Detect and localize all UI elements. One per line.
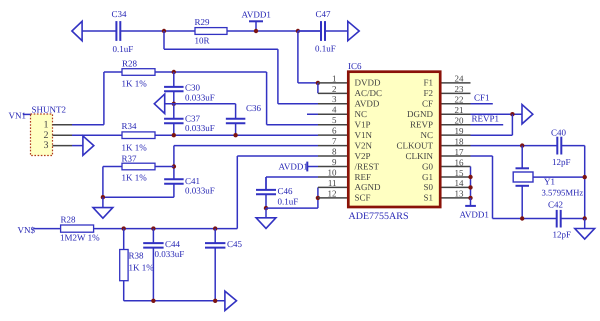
svg-text:24: 24 [455, 74, 465, 84]
pin 16 G0 [442, 166, 471, 168]
pin 1 DVDD [318, 82, 347, 84]
svg-text:1: 1 [332, 73, 337, 83]
wire [120, 30, 195, 32]
ground crystal [584, 219, 586, 229]
svg-text:F1: F1 [423, 78, 433, 88]
pin 3 AVDD [318, 103, 347, 105]
svg-text:3: 3 [44, 140, 49, 151]
svg-text:11: 11 [328, 178, 337, 188]
svg-text:AC/DC: AC/DC [355, 88, 383, 98]
node junction C44 bottom [151, 299, 155, 303]
svg-text:AVDD1: AVDD1 [279, 162, 308, 172]
pin 7 V2N [318, 145, 347, 147]
node junction C37 bottom [172, 133, 176, 137]
wire shunt pin1 up to R28 [72, 124, 104, 126]
crystal Y1 [521, 146, 523, 169]
svg-text:NC: NC [355, 109, 368, 119]
svg-text:1K 1%: 1K 1% [122, 172, 148, 182]
capacitor C46 [265, 177, 267, 190]
pin 15 G1 [442, 176, 471, 178]
svg-text:C40: C40 [551, 128, 567, 138]
port VIN-left (left arrow) [72, 21, 82, 40]
wire C47-junction to pin1 [297, 31, 299, 83]
svg-text:C36: C36 [246, 103, 262, 113]
node junction pin12 SCF [316, 196, 320, 200]
port AVDD-right (right arrow) [348, 21, 359, 40]
svg-text:S1: S1 [423, 193, 433, 203]
svg-text:4: 4 [332, 105, 337, 115]
svg-text:REVP1: REVP1 [472, 113, 500, 123]
wire AVDD branch to pin3 [163, 31, 165, 49]
node junction C36 bottom [233, 133, 237, 137]
svg-text:CF: CF [422, 99, 433, 109]
pin 14 S0 [442, 186, 471, 188]
wire C46 bottom to pin11/12 [266, 207, 318, 209]
svg-text:3.5795MHz: 3.5795MHz [542, 188, 584, 198]
node junction top-rail/R29 [162, 29, 166, 33]
pin 11 AGND [318, 186, 347, 188]
svg-text:ADE7755ARS: ADE7755ARS [349, 211, 409, 222]
pin 19 NC [442, 134, 471, 136]
wire mid line to C36 [165, 103, 236, 105]
port bottom (right arrow) [225, 291, 237, 310]
pin 18 CLKOUT [442, 145, 471, 147]
node junction R38 top [122, 226, 126, 230]
pin 23 F2 [442, 92, 471, 94]
svg-text:19: 19 [455, 126, 465, 136]
wire shunt pin3 [72, 145, 83, 147]
pin 6 V1N [318, 134, 347, 136]
svg-text:CLKIN: CLKIN [406, 151, 434, 161]
svg-text:6: 6 [332, 126, 337, 136]
pin 3 SHUNT2 [53, 145, 73, 147]
capacitor C30 [173, 72, 175, 87]
svg-text:V2P: V2P [355, 151, 371, 161]
svg-text:0.033uF: 0.033uF [185, 123, 215, 133]
wire pin18 CLKOUT [471, 145, 558, 147]
node junction case/right rail [583, 175, 587, 179]
svg-text:1K 1%: 1K 1% [129, 263, 155, 273]
wire NC pin4 stub [307, 113, 318, 115]
wire [227, 30, 321, 32]
wire VN$ [33, 228, 60, 230]
svg-text:V1N: V1N [355, 130, 373, 140]
svg-text:16: 16 [455, 157, 465, 167]
pin 21 DGND [442, 113, 471, 115]
svg-text:AGND: AGND [355, 182, 381, 192]
wire pin19 to DGND [511, 114, 513, 135]
svg-text:0.1uF: 0.1uF [113, 44, 134, 54]
resistor R28 [122, 69, 155, 76]
svg-text:CF1: CF1 [474, 93, 490, 103]
pin 2 AC/DC [318, 92, 347, 94]
ground R37 [102, 197, 104, 207]
node junction C45 bottom [213, 299, 217, 303]
node junction right rail bottom [583, 216, 587, 220]
svg-text:0.033uF: 0.033uF [185, 93, 215, 103]
wire pin20 REVP [471, 124, 504, 126]
svg-text:VN$: VN$ [18, 225, 36, 235]
svg-text:DVDD: DVDD [355, 78, 381, 88]
svg-text:2: 2 [332, 84, 337, 94]
wire C42 right [561, 218, 585, 220]
svg-text:2: 2 [44, 130, 49, 141]
pin 24 F1 [442, 82, 471, 84]
wire C41 bottom to ground node [103, 196, 174, 198]
wire pin22 CF [471, 103, 493, 105]
svg-text:R28: R28 [61, 215, 77, 225]
capacitor C42 [556, 210, 558, 228]
svg-text:SHUNT2: SHUNT2 [32, 105, 67, 115]
resistor R29 [195, 28, 227, 35]
pin 12 SCF [318, 197, 347, 199]
svg-text:12pF: 12pF [553, 230, 572, 240]
svg-text:23: 23 [455, 84, 465, 94]
svg-text:R28: R28 [122, 59, 138, 69]
svg-text:V1P: V1P [355, 120, 371, 130]
svg-text:DGND: DGND [407, 109, 433, 119]
svg-text:0.033uF: 0.033uF [185, 185, 215, 195]
pin 10 REF [318, 176, 347, 178]
wire C40 right [561, 145, 584, 147]
svg-text:21: 21 [455, 105, 464, 115]
svg-text:R37: R37 [122, 154, 138, 164]
node junction pin1/pin2 [316, 81, 320, 85]
wire R34 out to pin6 V1N [155, 134, 318, 136]
resistor R34 [122, 132, 155, 139]
ground C46 [265, 208, 267, 218]
svg-text:CLKOUT: CLKOUT [397, 140, 434, 150]
capacitor C45 [214, 229, 216, 244]
svg-text:AVDD1: AVDD1 [242, 10, 271, 20]
svg-text:3: 3 [332, 94, 337, 104]
wire pin21 DGND [471, 113, 523, 115]
power AVDD1 pin9 [306, 162, 308, 172]
svg-text:C42: C42 [548, 199, 563, 209]
wire crystal case [533, 176, 585, 178]
node junction C30/mid-line [172, 102, 176, 106]
svg-text:R34: R34 [122, 121, 138, 131]
wire pin17 CLKIN [471, 155, 493, 157]
pin 13 S1 [442, 197, 471, 199]
svg-text:AVDD1: AVDD1 [460, 210, 489, 220]
svg-text:NC: NC [420, 130, 433, 140]
node junction R37 right [172, 164, 176, 168]
svg-text:8: 8 [332, 146, 337, 156]
svg-text:REF: REF [355, 172, 372, 182]
node junction crystal bottom [520, 216, 524, 220]
svg-text:22: 22 [455, 95, 464, 105]
svg-text:IC6: IC6 [348, 61, 362, 71]
svg-text:1: 1 [44, 119, 49, 130]
svg-text:20: 20 [455, 116, 465, 126]
node junction crystal top [520, 143, 524, 147]
wire pin10 REF to C46 [266, 176, 318, 178]
connector SHUNT2 [31, 114, 53, 156]
pin 17 CLKIN [442, 155, 471, 157]
svg-text:SCF: SCF [355, 193, 371, 203]
wire pin1 to pin2 jog [317, 83, 319, 93]
svg-text:C45: C45 [227, 239, 243, 249]
svg-text:15: 15 [455, 168, 465, 178]
wire R37 right lead [155, 166, 174, 168]
svg-text:0.033uF: 0.033uF [155, 249, 185, 259]
wire R28 net to pin5 V1P [266, 72, 268, 125]
svg-text:10: 10 [328, 167, 338, 177]
node junction pin13 [468, 196, 472, 200]
svg-text:C34: C34 [112, 9, 128, 19]
svg-text:AVDD: AVDD [355, 99, 380, 109]
port mid (left arrow) [154, 94, 164, 113]
pin 8 V2P [318, 155, 347, 157]
svg-text:17: 17 [455, 147, 465, 157]
svg-text:14: 14 [455, 178, 465, 188]
svg-text:C37: C37 [185, 114, 201, 124]
svg-text:12: 12 [328, 188, 337, 198]
capacitor C44 [152, 229, 154, 244]
wire R28 out [155, 71, 267, 73]
svg-text:REVP: REVP [410, 120, 433, 130]
svg-text:7: 7 [332, 136, 337, 146]
svg-text:C46: C46 [278, 186, 294, 196]
resistor R38 [123, 229, 125, 250]
node junction R28/C30 [172, 70, 176, 74]
svg-text:G1: G1 [422, 172, 433, 182]
op-amp IC6 ADE7755ARS body [348, 72, 440, 207]
wire VN1 [23, 113, 31, 115]
wire shunt pin2 to R34 [72, 134, 122, 136]
svg-text:V2N: V2N [355, 140, 373, 150]
node junction C45 top [213, 226, 217, 230]
capacitor C40 [556, 137, 558, 155]
capacitor C41 [173, 178, 175, 180]
svg-text:R29: R29 [195, 17, 211, 27]
node junction pin14 [468, 185, 472, 189]
node junction DGND/pin19 [510, 112, 514, 116]
wire pin7 V2N net [174, 145, 318, 147]
wire R28-1M out [94, 228, 238, 230]
svg-text:1K 1%: 1K 1% [122, 142, 148, 152]
resistor R37 [122, 163, 155, 170]
svg-text:F2: F2 [423, 88, 433, 98]
pin 20 REVP [442, 124, 471, 126]
svg-text:S0: S0 [423, 182, 433, 192]
svg-text:9: 9 [332, 157, 337, 167]
capacitor C36 [235, 104, 237, 119]
capacitor C34 [115, 30, 117, 32]
power AVDD1 pin13 [470, 198, 472, 206]
svg-text:G0: G0 [422, 161, 433, 171]
pin 22 CF [442, 103, 471, 105]
resistor R28 1M [61, 225, 94, 232]
node junction C46 bottom [264, 206, 268, 210]
wire R37 left to ground [103, 166, 122, 168]
node junction top-rail/C47-drop [296, 29, 300, 33]
svg-text:1K 1%: 1K 1% [122, 79, 148, 89]
node junction ground net [101, 195, 105, 199]
svg-text:Y1: Y1 [544, 177, 555, 187]
svg-text:C44: C44 [165, 239, 181, 249]
wire [82, 30, 116, 32]
svg-text:VN1: VN1 [9, 111, 27, 121]
svg-text:13: 13 [455, 189, 465, 199]
svg-text:5: 5 [332, 115, 337, 125]
node junction pin15 [468, 175, 472, 179]
svg-text:10R: 10R [195, 36, 210, 46]
svg-text:0.1uF: 0.1uF [315, 44, 336, 54]
svg-text:/REST: /REST [355, 161, 380, 171]
pin 5 V1P [318, 124, 347, 126]
svg-text:12pF: 12pF [552, 157, 571, 167]
port DGND (right arrow) [522, 105, 533, 124]
pin 1 SHUNT2 [53, 124, 73, 126]
wire pin8 V2P net [237, 155, 318, 157]
svg-text:C30: C30 [185, 83, 201, 93]
node junction C44 top [151, 226, 155, 230]
wire R38 bottom [123, 281, 125, 301]
svg-text:18: 18 [455, 136, 465, 146]
pin 9 /REST [318, 166, 347, 168]
pin 4 NC [318, 113, 347, 115]
svg-text:0.1uF: 0.1uF [278, 197, 299, 207]
capacitor C37 [173, 104, 175, 119]
wire pins16-13 tie [470, 167, 472, 198]
svg-text:C47: C47 [316, 9, 332, 19]
pin 2 SHUNT2 [53, 134, 73, 136]
svg-text:R38: R38 [129, 251, 145, 261]
power AVDD1 top [249, 20, 263, 22]
port shunt3 (right arrow) [83, 136, 94, 155]
capacitor C47 [298, 30, 321, 32]
svg-text:1M2W 1%: 1M2W 1% [60, 232, 100, 242]
